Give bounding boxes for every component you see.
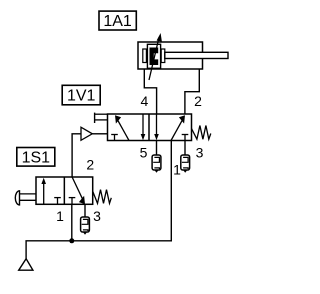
cylinder 1A1 piston rod <box>165 52 228 58</box>
cylinder 1A1 cushion boss right <box>161 49 165 63</box>
svg-text:5: 5 <box>140 145 148 161</box>
cylinder 1A1 cushion sleeve left <box>143 49 147 63</box>
wire 1S1 port 1 down to supply line <box>71 204 73 241</box>
svg-text:4: 4 <box>141 93 149 109</box>
valve 1V1 right box arrow 4-5 down <box>154 114 159 140</box>
svg-text:3: 3 <box>93 208 101 224</box>
pilot wire 1S1 port 2 to 1V1 pilot <box>72 134 81 177</box>
svg-text:1: 1 <box>173 162 181 178</box>
valve 1V1 left box arrow 2-3 down <box>141 114 146 140</box>
wire cylinder right port to valve port 2 <box>185 69 199 114</box>
cylinder 1A1 cushion seal (black C) <box>150 48 159 66</box>
svg-text:1: 1 <box>56 208 64 224</box>
silencer on 1V1 port 5 <box>152 141 161 173</box>
cylinder 1A1 cushion adjust arrow <box>149 33 162 80</box>
wire cylinder left port to valve port 4 <box>144 69 156 114</box>
valve 1S1 right box arrow 2-3 <box>72 177 85 204</box>
junction dot <box>69 238 74 243</box>
valve 1S1 left box blocked port 3 <box>54 198 61 205</box>
valve 1S1 body <box>36 177 93 204</box>
svg-text:2: 2 <box>194 93 202 109</box>
valve 1V1 return spring <box>192 126 211 140</box>
valve 1S1 right box blocked port 1 <box>69 198 76 205</box>
valve 1V1 pilot head <box>95 113 108 123</box>
valve 1S1 left box arrow 1-2 up <box>41 178 46 205</box>
valve 1V1 left box blocked port 5 <box>111 135 118 141</box>
valve 1V1 pilot triangle <box>81 127 108 140</box>
svg-text:1V1: 1V1 <box>67 88 96 105</box>
svg-text:2: 2 <box>86 157 94 173</box>
valve 1V1 right box blocked port 3 <box>182 135 189 141</box>
svg-text:1S1: 1S1 <box>22 150 51 167</box>
label box 1A1 <box>99 11 136 30</box>
compressed air supply <box>19 259 33 271</box>
silencer on 1V1 port 3 <box>181 141 190 173</box>
label box 1S1 <box>17 148 55 167</box>
cylinder 1A1 piston <box>147 44 160 68</box>
label box 1V1 <box>62 85 100 105</box>
valve 1S1 pushbutton <box>15 191 36 205</box>
valve 1V1 body <box>108 114 192 141</box>
valve 1V1 right box arrow 1-2 <box>171 115 185 140</box>
svg-text:3: 3 <box>196 145 204 161</box>
cylinder 1A1 body <box>138 42 203 69</box>
valve 1S1 return spring <box>93 190 112 204</box>
silencer on 1S1 port 3 <box>81 204 90 234</box>
valve 1V1 left box arrow 1-4 <box>115 115 129 140</box>
wire 1V1 port 1 to supply line <box>26 141 171 259</box>
svg-text:1A1: 1A1 <box>103 13 132 30</box>
